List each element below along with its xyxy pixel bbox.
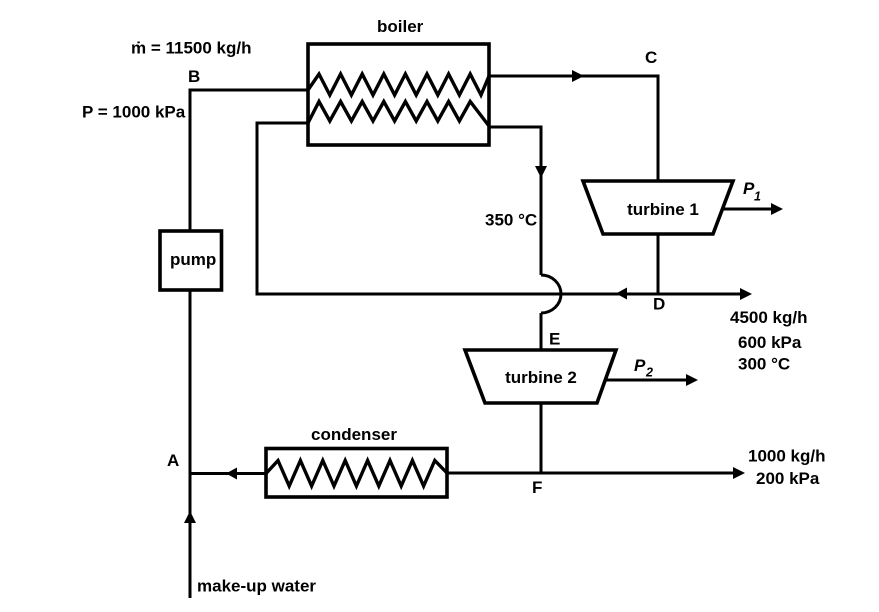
svg-text:E: E [549,330,560,349]
svg-text:600 kPa: 600 kPa [738,333,802,352]
svg-text:4500 kg/h: 4500 kg/h [730,308,808,327]
svg-text:A: A [167,451,179,470]
svg-text:2: 2 [645,366,653,380]
svg-text:200 kPa: 200 kPa [756,469,820,488]
svg-text:boiler: boiler [377,17,424,36]
svg-text:1000 kg/h: 1000 kg/h [748,447,826,466]
svg-text:F: F [532,478,542,497]
svg-text:D: D [653,295,665,314]
svg-text:pump: pump [170,250,216,269]
svg-text:C: C [645,48,657,67]
svg-text:make-up water: make-up water [197,577,316,596]
svg-text:ṁ = 11500 kg/h: ṁ = 11500 kg/h [131,39,252,58]
svg-text:P = 1000 kPa: P = 1000 kPa [82,103,186,122]
svg-text:condenser: condenser [311,425,397,444]
svg-text:350 °C: 350 °C [485,211,537,230]
svg-text:turbine 1: turbine 1 [627,200,699,219]
svg-text:P: P [634,356,646,375]
svg-text:1: 1 [754,190,761,204]
svg-text:B: B [188,67,200,86]
svg-text:turbine 2: turbine 2 [505,368,577,387]
svg-text:300 °C: 300 °C [738,355,790,374]
